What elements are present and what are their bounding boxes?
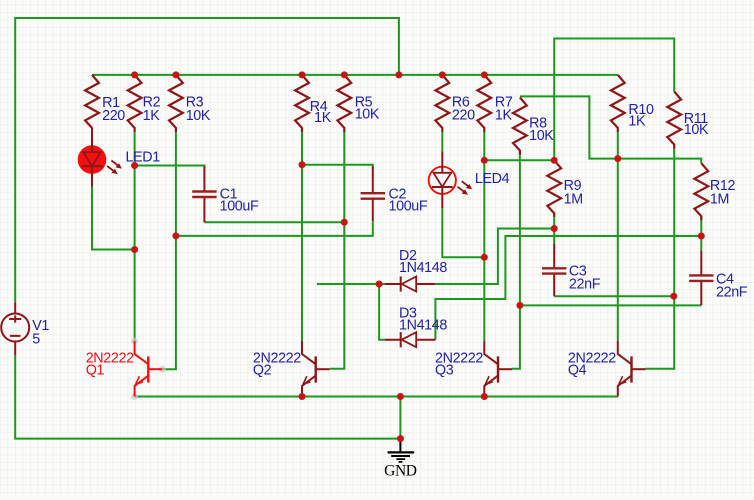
diode D3 (385, 332, 436, 347)
wire emitter rail (135, 396, 618, 398)
wire LED4 to node (442, 208, 484, 257)
wire C2 bottom to R3 branch (176, 221, 373, 236)
svg-text:10K: 10K (355, 107, 380, 123)
junction R7 node (481, 157, 488, 164)
ground GND (388, 439, 415, 462)
capacitor C3 (542, 244, 566, 297)
junction R10 bottom (614, 155, 621, 162)
wire diode stub (317, 283, 379, 285)
junction GND tap top (397, 393, 404, 400)
junction R3 C2 node (172, 232, 179, 239)
junction rail R7 (481, 71, 488, 78)
svg-text:10K: 10K (529, 128, 554, 144)
junction rail R2 (131, 71, 138, 78)
wire R1 to LED1 lead (91, 128, 93, 146)
wire D2 node to D3 (379, 284, 385, 340)
junction Q4 base node (670, 293, 677, 300)
resistor R1 (85, 75, 99, 128)
junction rail R4 (299, 71, 306, 78)
wire R7 to Q3 collector (483, 132, 485, 342)
junction LED4 node (481, 254, 488, 261)
wire R11 to Q4 base (645, 149, 674, 369)
wire D3 to C4 top node (435, 236, 701, 340)
junction R9 top (551, 157, 558, 164)
wire C1 bottom to R5 branch (204, 221, 344, 223)
junction C1 bottom node (341, 219, 348, 226)
wire ground bottom border (15, 355, 400, 439)
junction Q2 emitter (299, 393, 306, 400)
wire R3 to Q1 base (162, 132, 176, 370)
wire C4 bottom to Q3 base branch (520, 304, 701, 306)
wire V+ rail (92, 74, 618, 76)
capacitor C1 (192, 166, 216, 222)
svg-text:LED4: LED4 (475, 171, 510, 187)
resistor R8 (513, 98, 527, 155)
wire node to C2 top (302, 165, 373, 169)
resistor R4 (295, 75, 309, 132)
svg-text:22nF: 22nF (569, 276, 601, 292)
junction C3 top node (551, 225, 558, 232)
wire node to D2 (379, 283, 385, 285)
resistor R9 (547, 160, 561, 217)
capacitor C2 (361, 167, 385, 222)
svg-text:1M: 1M (710, 191, 729, 207)
resistor R6 (435, 75, 449, 132)
svg-text:1K: 1K (628, 113, 646, 129)
wire D2 to C3 top node (435, 229, 554, 285)
wire R12 bottom (700, 216, 702, 236)
svg-text:GND: GND (384, 463, 417, 480)
wire V+ border top-left (15, 18, 399, 302)
wire C4 top lead (700, 236, 702, 250)
wire R6 to LED4 (441, 132, 443, 152)
junction C1 top node (131, 162, 138, 169)
wire C3 top lead (553, 229, 555, 244)
svg-text:100uF: 100uF (220, 198, 259, 214)
junction rail R5 (341, 71, 348, 78)
svg-text:1K: 1K (143, 108, 161, 124)
wire R4 to Q2 collector (301, 132, 303, 342)
LED LED4 (429, 167, 473, 195)
wire R9 top to R11 top (554, 39, 674, 161)
wire R8 to Q3 base (512, 152, 520, 369)
svg-text:22nF: 22nF (716, 285, 748, 301)
svg-text:Q3: Q3 (435, 362, 454, 378)
wire R8 top to R12 top (520, 96, 701, 163)
junction Q3 emitter (481, 393, 488, 400)
resistor R3 (169, 75, 183, 132)
svg-text:1K: 1K (495, 107, 513, 123)
LED4 leads (441, 151, 443, 208)
wire R5 to Q2 base (330, 132, 345, 369)
wire LED1 to node (92, 187, 135, 250)
junction rail R3 (172, 71, 179, 78)
junction C2 top node (299, 161, 306, 168)
resistor R12 (694, 163, 708, 220)
wire ground tap (399, 397, 401, 439)
resistor R10 (611, 75, 625, 132)
transistor Q3 (484, 341, 512, 397)
resistor R7 (477, 75, 491, 132)
wire R10 to Q4 collector (617, 132, 619, 342)
svg-text:Q2: Q2 (253, 362, 272, 378)
resistor R11 (667, 92, 681, 149)
svg-text:1K: 1K (314, 110, 332, 126)
LED1 leads (91, 145, 93, 187)
junction rail border (395, 71, 402, 78)
svg-text:220: 220 (102, 108, 125, 124)
svg-text:LED1: LED1 (126, 150, 161, 166)
wire C3 bottom to Q4 base branch (554, 295, 674, 297)
svg-text:100uF: 100uF (389, 198, 428, 214)
svg-text:5: 5 (32, 331, 40, 347)
wire R7 node to R9 top (484, 159, 554, 161)
resistor R2 (128, 75, 142, 132)
svg-text:1N4148: 1N4148 (399, 318, 447, 334)
svg-text:Q1: Q1 (86, 362, 105, 378)
junction LED1 node (131, 246, 138, 253)
junction rail R6 (439, 71, 446, 78)
capacitor C4 (689, 250, 713, 305)
junction diode node (376, 281, 383, 288)
svg-text:10K: 10K (186, 108, 211, 124)
voltage source V1 (1, 302, 29, 355)
svg-text:10K: 10K (684, 122, 709, 138)
resistor R5 (337, 75, 351, 132)
svg-text:1N4148: 1N4148 (399, 260, 447, 276)
diode D2 (385, 276, 436, 291)
wire R2 to Q1 collector (134, 132, 136, 342)
junction C4 top node (698, 233, 705, 240)
transistor Q2 (302, 341, 330, 397)
wire R9 bottom (553, 218, 555, 229)
junction Q3 base node (516, 302, 523, 309)
svg-text:1M: 1M (564, 191, 583, 207)
svg-text:Q4: Q4 (568, 362, 587, 378)
svg-text:220: 220 (452, 107, 475, 123)
LED LED1 (78, 145, 122, 174)
transistor Q4 (618, 341, 646, 397)
wire node to C1 top (135, 166, 205, 167)
junction GND tap bottom (397, 435, 404, 442)
transistor Q1 (131, 338, 166, 400)
